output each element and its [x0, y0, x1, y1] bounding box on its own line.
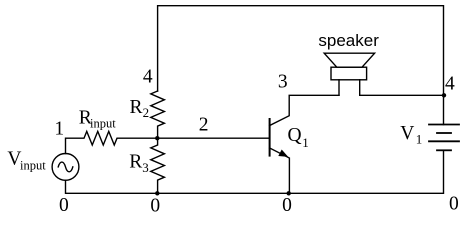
- svg-text:1: 1: [302, 135, 309, 150]
- svg-text:3: 3: [142, 160, 149, 175]
- svg-text:V: V: [400, 123, 414, 144]
- svg-text:2: 2: [199, 115, 209, 136]
- svg-text:0: 0: [150, 195, 160, 216]
- svg-text:2: 2: [143, 105, 150, 120]
- svg-text:speaker: speaker: [318, 31, 379, 50]
- svg-text:R: R: [130, 97, 143, 118]
- svg-text:4: 4: [445, 73, 455, 94]
- svg-text:3: 3: [278, 71, 288, 92]
- svg-text:0: 0: [449, 194, 459, 215]
- svg-text:input: input: [20, 158, 46, 172]
- svg-text:0: 0: [282, 195, 292, 216]
- svg-text:1: 1: [416, 132, 423, 147]
- svg-text:input: input: [90, 116, 116, 130]
- svg-text:Q: Q: [288, 125, 302, 146]
- svg-text:0: 0: [59, 195, 69, 216]
- svg-text:1: 1: [54, 119, 64, 140]
- svg-text:R: R: [129, 151, 142, 172]
- svg-text:4: 4: [143, 67, 153, 88]
